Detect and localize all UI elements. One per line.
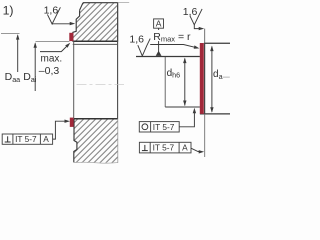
dimension dh6 <box>164 57 166 107</box>
svg-text:IT 5-7: IT 5-7 <box>153 122 175 132</box>
wavy break line bottom <box>74 161 118 164</box>
second face line under housing <box>73 43 118 45</box>
shaft shoulder top surface <box>204 42 230 44</box>
red marked shoulder face <box>200 43 204 114</box>
svg-text:1,6: 1,6 <box>44 4 59 16</box>
svg-text:1,6: 1,6 <box>129 34 144 46</box>
red marked seat surface, housing lower <box>70 118 74 127</box>
dimension da <box>211 47 213 112</box>
outer edge line between blocks <box>117 3 119 119</box>
faint top edge extension <box>118 2 130 4</box>
shaft seat top surface <box>136 56 200 58</box>
leader from roundness frame <box>179 111 194 127</box>
shoulder face black line <box>204 43 206 114</box>
svg-text:1): 1) <box>3 3 14 17</box>
leader from lower-left tolerance frame <box>53 121 67 139</box>
tolerance frame: perpendicularity IT 5-7 A (right) <box>139 142 191 153</box>
svg-text:A: A <box>156 19 162 29</box>
dimension Daa <box>1 32 20 34</box>
shaft shoulder bottom surface <box>200 113 230 115</box>
extension line below shoulder <box>204 114 206 157</box>
shaft seat bottom surface <box>165 106 200 108</box>
svg-text:IT 5-7: IT 5-7 <box>15 134 37 144</box>
tolerance frame: perpendicularity IT 5-7 A (left) <box>2 134 52 144</box>
leader from right perpendicularity frame <box>191 148 201 151</box>
datum A box and triangle <box>154 19 164 28</box>
hatching lower housing block <box>14 117 176 165</box>
dimension Dai <box>36 41 70 43</box>
hatching upper housing block <box>20 1 171 44</box>
bore edge line between blocks <box>73 41 75 119</box>
svg-text:max.: max. <box>41 53 63 64</box>
bore axis dash-dot line <box>77 84 125 86</box>
tolerance frame: roundness IT 5-7 <box>139 122 179 132</box>
housing upper block outline <box>73 3 118 42</box>
svg-text:IT 5-7: IT 5-7 <box>153 143 175 153</box>
lower block right thin edge <box>117 119 119 163</box>
housing lower block outline <box>74 118 118 120</box>
svg-text:A: A <box>182 143 188 153</box>
red marked seat surface, housing upper <box>69 33 73 41</box>
extension line above shoulder <box>204 29 206 44</box>
svg-text:A: A <box>43 134 49 144</box>
svg-text:–0,3: –0,3 <box>39 65 60 77</box>
